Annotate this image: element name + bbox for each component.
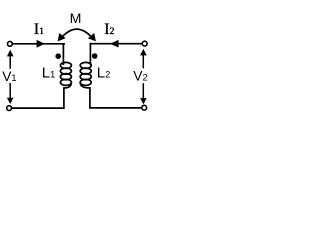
terminal top-right — [142, 41, 147, 46]
svg-text:V2: V2 — [133, 69, 147, 84]
wire left coil top vertical — [62, 44, 64, 65]
wire top-left horizontal — [13, 43, 65, 45]
mutual arc arrowhead left — [58, 33, 66, 41]
mutual arc arrowhead right — [88, 33, 96, 41]
terminal bottom-left — [7, 106, 12, 111]
terminal top-left — [7, 41, 12, 46]
current arrow I1 — [37, 40, 45, 48]
polarity dot right — [92, 53, 98, 59]
voltage arrow V2 upper — [140, 49, 147, 68]
svg-text:V1: V1 — [2, 69, 16, 84]
svg-text:I1: I1 — [34, 21, 44, 38]
wire left coil bottom vertical — [12, 88, 64, 108]
svg-text:L2: L2 — [97, 65, 111, 82]
wire top-right horizontal — [90, 43, 142, 45]
inductor L1 — [60, 62, 71, 88]
voltage arrow V1 upper — [7, 50, 14, 69]
svg-text:L1: L1 — [42, 65, 55, 82]
wire right coil bottom vertical — [90, 88, 142, 108]
mutual coupling arc M — [61, 29, 92, 38]
voltage arrow V2 lower — [140, 83, 147, 104]
inductor L2 — [80, 62, 91, 88]
svg-text:M: M — [70, 11, 82, 27]
current arrow I2 — [110, 40, 119, 48]
voltage arrow V1 lower — [7, 83, 14, 104]
terminal bottom-right — [142, 105, 147, 110]
wire right coil top vertical — [89, 44, 91, 65]
svg-text:I2: I2 — [104, 21, 114, 38]
polarity dot left — [55, 53, 61, 59]
